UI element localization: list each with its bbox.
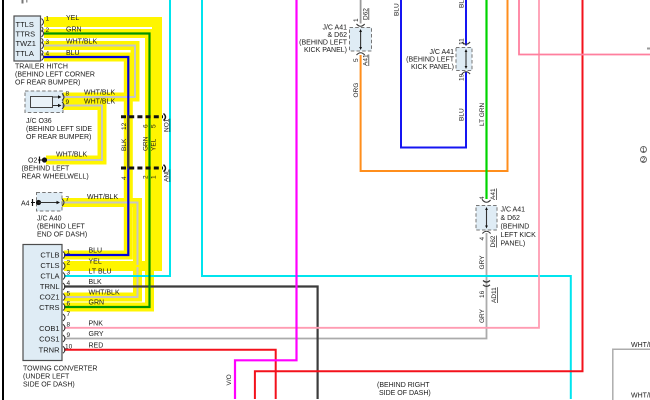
svg-text:TOWING CONVERTER: TOWING CONVERTER	[23, 366, 97, 373]
svg-text:1: 1	[353, 18, 360, 22]
svg-text:(BEHIND LEFT: (BEHIND LEFT	[22, 166, 71, 173]
svg-text:(BEHIND RIGHT: (BEHIND RIGHT	[377, 382, 430, 389]
svg-text:GRY: GRY	[89, 331, 104, 338]
svg-text:COB1: COB1	[39, 324, 59, 333]
junction J/C A41 pins 11/19	[456, 42, 472, 74]
wire BLU U-shape via J/C A41	[401, 0, 466, 148]
svg-text:(UNDER LEFT: (UNDER LEFT	[23, 374, 70, 381]
svg-text:V/O: V/O	[226, 374, 233, 385]
svg-text:NO1: NO1	[164, 118, 171, 132]
svg-text:BLU: BLU	[89, 248, 103, 255]
svg-text:AD11: AD11	[491, 287, 498, 303]
wire GRY towing pin9 to J/C A41&D62	[64, 233, 487, 339]
svg-text:RED: RED	[89, 342, 104, 349]
wire WHT/BLK trailer pin3 to O36 pin8	[44, 46, 135, 98]
svg-text:(BEHIND LEFT: (BEHIND LEFT	[406, 57, 455, 64]
svg-text:LEFT KICK: LEFT KICK	[501, 232, 537, 239]
svg-text:GRN: GRN	[89, 300, 105, 307]
svg-text:J/C O36: J/C O36	[26, 118, 52, 125]
wire PNK towing pin8	[64, 0, 539, 328]
svg-text:4: 4	[121, 176, 128, 180]
wire RED towing pin10	[64, 350, 276, 399]
highlight yellow circuit trailer pin4 BLU to towing pin1	[44, 57, 128, 255]
svg-text:1: 1	[67, 249, 71, 256]
wire YEL trailer pin1 to towing pin2	[44, 22, 157, 266]
svg-text:12: 12	[121, 122, 128, 130]
svg-text:WHT/BLK: WHT/BLK	[87, 194, 118, 201]
svg-text:GRY: GRY	[479, 308, 486, 323]
frame left border	[2, 0, 4, 400]
junction J/C A41 & D62 lower	[476, 200, 497, 234]
svg-text:J/C A41: J/C A41	[322, 25, 347, 32]
towing converter pin numbers	[65, 249, 73, 351]
svg-text:ANL: ANL	[164, 169, 171, 182]
wire PNK upper right horizontal	[519, 0, 650, 55]
svg-text:TTLA: TTLA	[16, 49, 34, 58]
wire RED bottom to top right	[255, 0, 583, 399]
svg-text:6: 6	[67, 301, 71, 308]
svg-text:A41: A41	[363, 54, 370, 66]
J/C A40 caption	[37, 216, 87, 239]
svg-text:(BEHIND LEFT: (BEHIND LEFT	[299, 40, 348, 47]
trailer hitch caption	[15, 64, 95, 87]
svg-text:4: 4	[479, 237, 486, 241]
svg-text:ORG: ORG	[353, 83, 360, 98]
junction J/C O36	[25, 91, 64, 113]
svg-text:LT BLU: LT BLU	[89, 269, 112, 276]
wire ORG from J/C A41&D62	[361, 0, 508, 171]
svg-text:D62: D62	[490, 235, 497, 247]
trailer hitch pin numbers	[46, 16, 50, 58]
svg-text:TWZ1: TWZ1	[16, 39, 36, 48]
J/C A41 caption	[406, 49, 455, 71]
svg-text:5: 5	[353, 58, 360, 62]
svg-text:YEL: YEL	[89, 259, 102, 266]
svg-text:GRY: GRY	[479, 255, 486, 270]
svg-text:BLU: BLU	[66, 50, 80, 57]
svg-text:3: 3	[46, 39, 50, 46]
circled note 1	[641, 147, 647, 153]
towing converter wire labels	[89, 248, 120, 350]
svg-text:4: 4	[479, 196, 486, 200]
ground O2	[28, 157, 47, 165]
svg-text:9: 9	[66, 99, 70, 106]
svg-text:16: 16	[479, 290, 486, 298]
svg-text:(BEHIND LEFT SIDE: (BEHIND LEFT SIDE	[26, 126, 92, 133]
svg-text:A4: A4	[21, 201, 30, 208]
connector TRAILER HITCH box	[14, 16, 41, 61]
svg-text:8: 8	[67, 321, 71, 328]
svg-text:OF REAR BUMPER): OF REAR BUMPER)	[15, 80, 80, 87]
svg-text:TTRS: TTRS	[16, 30, 36, 39]
svg-text:1: 1	[46, 16, 50, 23]
svg-text:2: 2	[67, 260, 71, 267]
svg-text:A41: A41	[490, 188, 497, 200]
svg-text:YEL: YEL	[66, 15, 79, 22]
svg-text:TTLS: TTLS	[16, 20, 34, 29]
svg-text:OF REAR BUMPER): OF REAR BUMPER)	[26, 134, 91, 141]
trailer hitch pin brackets	[42, 19, 44, 61]
wire LT GRN vertical	[485, 0, 487, 199]
pink wire end tick	[647, 48, 650, 50]
wire GRN trailer pin2 to towing pin6	[44, 34, 150, 308]
svg-text:1: 1	[151, 175, 158, 179]
svg-text:WHT/BLK: WHT/BLK	[84, 99, 115, 106]
J/C A41 & D62 upper caption	[299, 25, 348, 55]
svg-text:7: 7	[67, 311, 71, 318]
wire WHT bottom right component edge	[613, 349, 650, 400]
svg-text:WHT/BLK: WHT/BLK	[89, 290, 120, 297]
inline connector ANL dashes	[121, 167, 163, 170]
svg-text:(BEHIND LEFT CORNER: (BEHIND LEFT CORNER	[15, 72, 95, 79]
wire WHT/BLK A40 pin7 to towing pin5	[61, 203, 138, 298]
wire BLK segment between NO1 and ANL	[127, 116, 129, 169]
svg-text:4: 4	[67, 280, 71, 287]
svg-text:TRNR: TRNR	[39, 346, 60, 355]
svg-text:COZ1: COZ1	[39, 293, 59, 302]
highlight yellow circuit trailer pin1 YEL to towing pin2	[44, 22, 157, 266]
svg-text:BLU: BLU	[458, 0, 465, 8]
caption behind right side of dash	[377, 382, 431, 397]
J/C O36 caption	[26, 118, 92, 141]
svg-text:END OF DASH): END OF DASH)	[37, 232, 87, 239]
highlight yellow circuit trailer pin3 WHT/BLK to J/C O36 pin8	[44, 46, 135, 98]
svg-text:19: 19	[458, 73, 465, 81]
svg-text:5: 5	[151, 124, 158, 128]
svg-text:PNK: PNK	[89, 320, 104, 327]
svg-text:REAR WHEELWELL): REAR WHEELWELL)	[22, 174, 89, 181]
svg-text:CTLA: CTLA	[40, 272, 59, 281]
svg-text:O2: O2	[28, 158, 37, 165]
svg-text:2: 2	[46, 27, 50, 34]
svg-text:7: 7	[66, 196, 70, 203]
svg-text:KICK PANEL): KICK PANEL)	[411, 64, 454, 71]
svg-text:8: 8	[66, 91, 70, 98]
towing converter caption	[23, 366, 97, 389]
wire D62 gray top	[360, 0, 362, 24]
J/C A41 & D62 lower caption	[501, 207, 537, 248]
svg-text:WHT/BLK: WHT/BLK	[56, 152, 87, 159]
svg-text:J/C A40: J/C A40	[37, 216, 62, 223]
wire V/O magenta	[235, 0, 297, 399]
svg-text:CTLB: CTLB	[40, 251, 59, 260]
svg-text:(BEHIND: (BEHIND	[501, 224, 530, 231]
wire LT BLU vertical right branch	[202, 0, 571, 399]
svg-text:11: 11	[458, 38, 465, 45]
svg-text:COS1: COS1	[39, 335, 59, 344]
svg-text:LT GRN: LT GRN	[479, 102, 486, 126]
svg-text:SIDE OF DASH): SIDE OF DASH)	[23, 382, 75, 389]
svg-text:J/C A41: J/C A41	[501, 207, 526, 214]
svg-text:5: 5	[67, 291, 71, 298]
svg-text:BLU: BLU	[458, 108, 465, 121]
svg-text:WHT/BLK: WHT/BLK	[66, 39, 97, 46]
svg-text:& D62: & D62	[328, 32, 348, 39]
svg-text:2: 2	[143, 175, 150, 179]
svg-text:BLK: BLK	[89, 279, 103, 286]
inline connector AD11	[483, 281, 490, 283]
wire BLU J/C A41 pin11 up	[465, 0, 467, 46]
svg-text:WHT/BLK: WHT/BLK	[84, 90, 115, 97]
svg-text:4: 4	[46, 51, 50, 58]
svg-text:GRN: GRN	[66, 27, 82, 34]
svg-text:6: 6	[143, 124, 150, 128]
wire LT BLU towing pin3	[64, 0, 170, 276]
wire BLU trailer pin4 to towing pin1	[44, 57, 128, 255]
svg-text:TRNL: TRNL	[40, 282, 60, 291]
wire WHT/BLK O36 pin9 to O2 ground	[47, 106, 103, 161]
circled note 2	[641, 157, 647, 163]
highlight yellow circuit J/C A40 pin7 to towing pin5	[61, 203, 138, 298]
svg-text:9: 9	[67, 332, 71, 339]
svg-text:KICK PANEL): KICK PANEL)	[304, 47, 347, 54]
svg-text:WHT/B: WHT/B	[631, 393, 650, 400]
svg-text:BLU: BLU	[394, 3, 401, 16]
svg-text:WHT/B: WHT/B	[631, 342, 650, 349]
junction J/C A40	[21, 193, 64, 212]
svg-text:YEL: YEL	[151, 138, 158, 151]
connector TOWING CONVERTER box	[23, 245, 62, 361]
top-left cut text fragment	[22, 0, 24, 4]
svg-text:CTRS: CTRS	[39, 303, 59, 312]
svg-text:J/C A41: J/C A41	[429, 49, 454, 56]
svg-text:CTLS: CTLS	[40, 261, 59, 270]
highlight yellow circuit O36 pin9 to ground O2	[46, 106, 102, 161]
inline connector NO1 dashes	[121, 115, 163, 118]
O2 caption	[22, 166, 89, 181]
towing converter pin brackets	[63, 252, 65, 354]
wire BLK towing pin4	[64, 287, 318, 400]
svg-text:PANEL): PANEL)	[501, 241, 526, 248]
svg-text:BLK: BLK	[121, 138, 128, 151]
svg-text:GRN: GRN	[143, 136, 150, 151]
junction J/C A41 & D62 upper	[350, 24, 372, 55]
svg-text:(BEHIND LEFT: (BEHIND LEFT	[37, 224, 86, 231]
svg-text:TRAILER HITCH: TRAILER HITCH	[15, 64, 68, 71]
highlight yellow circuit trailer pin2 GRN to towing pin6	[44, 34, 150, 308]
svg-text:& D62: & D62	[501, 215, 521, 222]
trailer hitch wire labels	[66, 15, 97, 57]
svg-text:3: 3	[67, 270, 71, 277]
svg-text:10: 10	[65, 343, 73, 350]
svg-text:D62: D62	[363, 8, 370, 20]
svg-text:SIDE OF DASH): SIDE OF DASH)	[379, 390, 431, 397]
